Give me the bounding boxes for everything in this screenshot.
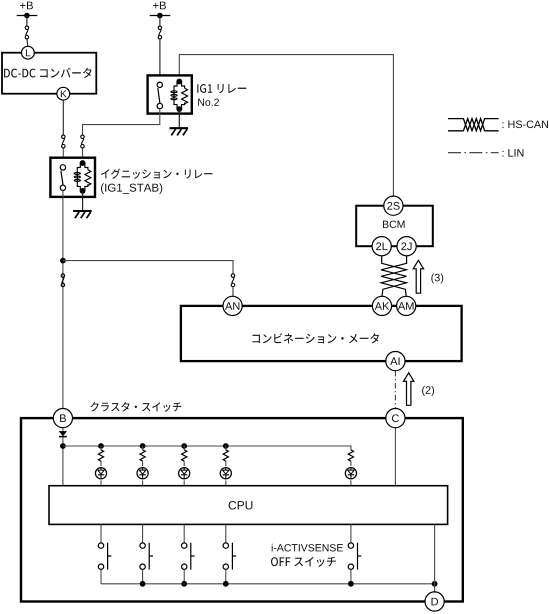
wire junction to AN fuse — [63, 261, 233, 274]
push switch 1 — [98, 543, 111, 570]
pin AK label — [375, 302, 390, 310]
wire ignition relay coil to ground — [82, 191, 84, 211]
wire resistor to LED 1 — [100, 461, 102, 466]
wire IG1 relay coil to BCM pin 2S — [179, 55, 393, 196]
battery feed +B (left) label — [20, 2, 33, 10]
wire pin K to fuse — [62, 100, 64, 135]
junction ground rail col 4 — [223, 581, 229, 587]
junction ground rail col D — [432, 581, 438, 587]
ignition relay switch contact — [60, 165, 65, 191]
resistor (LED 4) — [223, 450, 228, 461]
pin 2J label — [401, 242, 411, 250]
wire LED 2 to CPU — [142, 480, 144, 485]
pin K label — [61, 90, 67, 97]
arrow (2) — [404, 373, 414, 406]
wire CPU to switch 1 — [100, 524, 102, 543]
wire resistor to LED 2 — [142, 461, 144, 466]
pin K — [57, 87, 70, 100]
pin D label — [432, 598, 439, 606]
relay IG1 No.2 box — [148, 75, 192, 113]
label CPU — [229, 501, 253, 509]
pin AI — [386, 352, 405, 371]
pin 2S — [384, 196, 403, 215]
push switch 5 — [348, 543, 361, 570]
pin B — [53, 409, 72, 428]
wire LED 3 to CPU — [183, 480, 185, 485]
relay ignition (IG1_STAB) box — [50, 158, 95, 197]
legend text HS-CAN — [502, 120, 548, 128]
wire diode to CPU — [62, 437, 64, 485]
ground (ignition relay) — [73, 211, 92, 218]
wire +B fuse to pin L — [27, 39, 28, 46]
wire IG1 relay switch to ignition relay coil — [83, 109, 160, 135]
switch common rail — [101, 583, 435, 585]
resistor (LED 2) — [140, 450, 145, 461]
resistor (LED 1) — [98, 450, 103, 461]
push switch 2 — [140, 543, 153, 570]
pin AN — [223, 296, 242, 315]
label i-ACTIVSENSE — [272, 544, 343, 552]
pin C — [386, 409, 405, 428]
LED 2 — [137, 468, 148, 479]
wire switch 1 to ground rail — [100, 569, 102, 583]
fuse (middle +B feed) — [158, 26, 162, 39]
wire fuse to pin AN — [232, 287, 234, 296]
junction (B column / LED rail) — [60, 443, 66, 449]
pin AK — [372, 296, 391, 315]
pin L — [22, 46, 35, 59]
pin AI label — [390, 357, 399, 365]
label (IG1_STAB) — [101, 183, 162, 194]
label クラスタ・スイッチ — [90, 402, 181, 412]
push switch 4 — [223, 543, 236, 570]
wire LED 4 to CPU — [225, 480, 227, 485]
junction LED rail col 3 — [181, 443, 187, 449]
wire CPU to switch 5 — [350, 524, 352, 543]
label コンビネーション・メータ — [252, 333, 379, 343]
wire CPU to switch 4 — [225, 524, 227, 543]
junction (left trunk / AN branch) — [60, 258, 66, 264]
wire CPU to switch 3 — [183, 524, 185, 543]
battery feed +B (left) — [17, 13, 38, 26]
wire +B fuse to IG1 relay switch — [159, 39, 161, 82]
wire rail to resistor 1 — [100, 446, 102, 450]
fuse (left +B feed) — [25, 26, 29, 39]
wire rail to resistor 2 — [142, 446, 144, 450]
diode (B input) — [59, 431, 67, 436]
LIN wire AI to C — [394, 371, 396, 408]
wire fuse to ignition relay coil — [82, 149, 84, 164]
DC-DC converter box — [2, 53, 96, 94]
junction LED rail col 1 — [98, 443, 104, 449]
wire switch 4 to ground rail — [225, 569, 227, 583]
LED 4 — [220, 468, 231, 479]
twisted pair wire 2L to AK — [381, 256, 406, 296]
wire IG1 relay coil to ground — [178, 109, 180, 128]
legend LIN line — [448, 152, 499, 154]
wire fuse to ignition relay switch — [62, 149, 64, 165]
battery feed +B (middle) label — [153, 2, 166, 10]
wire resistor to LED 5 — [350, 461, 352, 466]
label IG1 リレー — [197, 84, 246, 93]
twisted pair wire 2J to AM — [381, 256, 407, 296]
pin D — [425, 592, 444, 611]
LED supply rail — [63, 446, 351, 450]
push switch 3 — [182, 543, 195, 570]
wire LED 1 to CPU — [100, 480, 102, 485]
label OFF スイッチ — [271, 557, 336, 567]
relay IG1 No.2 coil and resistor — [171, 82, 188, 110]
combination meter box — [181, 306, 462, 361]
junction LED rail col 2 — [140, 443, 146, 449]
wire pin C to CPU — [394, 428, 396, 486]
wire rail to resistor 4 — [225, 446, 227, 450]
BCM box — [356, 206, 433, 247]
wire CPU to pin D — [434, 524, 436, 592]
label No.2 — [198, 99, 219, 106]
junction LED rail col 4 — [223, 443, 229, 449]
LED 1 — [95, 468, 106, 479]
ground (IG1 relay No.2) — [170, 128, 189, 135]
legend HS-CAN twisted pair symbol — [448, 119, 499, 131]
pin AM label — [398, 302, 414, 310]
label BCM — [383, 221, 405, 228]
pin C label — [392, 414, 399, 422]
pin 2J — [397, 237, 416, 256]
wire LED 5 to CPU — [350, 480, 352, 485]
wire ignition relay switch to pin B — [62, 191, 64, 409]
wire pin B to diode — [62, 428, 64, 433]
LED 3 — [179, 468, 190, 479]
pin AM — [397, 296, 416, 315]
arrow (3) — [413, 260, 423, 293]
legend text LIN — [502, 149, 523, 156]
CPU box — [49, 486, 448, 525]
pin 2L label — [376, 242, 387, 250]
wire resistor to LED 4 — [225, 461, 227, 466]
cluster switch box — [21, 418, 463, 601]
pin B label — [60, 414, 66, 422]
wire switch 5 to ground rail — [350, 569, 352, 583]
battery feed +B (middle) — [150, 13, 171, 26]
fuse (meter AN feed) — [231, 274, 235, 287]
junction ground rail col 3 — [181, 581, 187, 587]
wire switch 2 to ground rail — [142, 569, 144, 583]
LED 5 — [345, 468, 356, 479]
ignition relay coil and resistor — [74, 163, 91, 191]
label (3) — [431, 273, 443, 283]
label DC-DC コンバータ — [4, 68, 91, 78]
pin AN label — [225, 302, 239, 310]
label (2) — [422, 386, 434, 396]
fuse (IG1_STAB feed) — [62, 135, 66, 148]
pin 2L — [372, 237, 391, 256]
pin L label — [26, 49, 30, 56]
label イグニッション・リレー — [101, 169, 212, 179]
junction ground rail col 2 — [140, 581, 146, 587]
resistor (LED 3) — [182, 450, 187, 461]
junction ground rail col 5 — [348, 581, 354, 587]
wire rail to resistor 3 — [183, 446, 185, 450]
fuse (ignition relay coil feed) — [81, 135, 85, 148]
resistor (LED 5) — [348, 450, 353, 461]
wire CPU to switch 2 — [142, 524, 144, 543]
wire resistor to LED 3 — [183, 461, 185, 466]
relay IG1 No.2 switch contact — [157, 82, 162, 109]
pin 2S label — [387, 202, 399, 210]
wire switch 3 to ground rail — [183, 569, 185, 583]
fuse (cluster switch B feed) — [61, 274, 65, 287]
